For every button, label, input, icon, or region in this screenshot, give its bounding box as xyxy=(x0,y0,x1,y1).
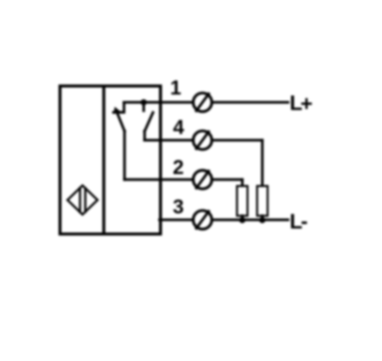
NC contact lever xyxy=(117,112,125,131)
sensor body partition xyxy=(102,86,105,234)
proximity symbol inner line right xyxy=(84,188,86,212)
NO contact lever xyxy=(145,113,153,132)
NC contact arrowhead xyxy=(114,107,121,114)
terminal 4 (screw) xyxy=(193,131,212,150)
fixed contact stub below node xyxy=(142,102,145,110)
wire pin4 vertical down to resistor R2 xyxy=(261,140,264,186)
wire pin2 vertical down to resistor R1 xyxy=(241,180,244,186)
junction dot R2 on L- rail xyxy=(259,217,265,223)
resistor R2 xyxy=(257,186,268,216)
proximity sensor symbol (diamond) xyxy=(68,186,98,215)
wire pin2 row xyxy=(125,178,243,181)
resistor R1 xyxy=(237,186,248,216)
wire pin3 / L- row xyxy=(160,219,289,222)
NO contact stub xyxy=(143,131,146,140)
terminal 3 (screw) xyxy=(193,211,212,230)
proximity symbol inner line left xyxy=(79,188,81,212)
svg-text:3: 3 xyxy=(173,197,184,219)
terminal 2 (screw) xyxy=(193,170,212,189)
NC contact vertical wire xyxy=(123,131,126,180)
sensor body outline xyxy=(60,86,161,234)
junction dot R1 on L- rail xyxy=(239,217,245,223)
svg-text:+: + xyxy=(300,93,312,116)
svg-text:1: 1 xyxy=(170,78,181,100)
svg-text:2: 2 xyxy=(173,157,184,179)
wire pin4 row xyxy=(145,139,263,142)
svg-text:-: - xyxy=(301,211,308,234)
wire bend to NC contact seat xyxy=(114,102,125,112)
terminal 1 (screw) xyxy=(193,93,212,112)
wire pin1 row (common / L+) xyxy=(124,101,288,104)
resistor R1 bottom lead xyxy=(241,216,244,220)
resistor R2 bottom lead xyxy=(261,216,264,220)
svg-text:4: 4 xyxy=(173,117,185,139)
junction dot (common node) xyxy=(141,99,147,105)
